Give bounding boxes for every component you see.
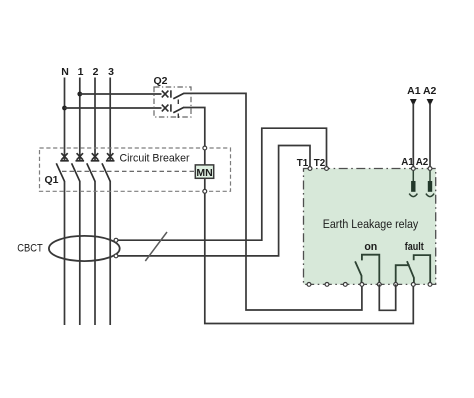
contact fault NC bracket	[396, 265, 410, 284]
svg-text:1: 1	[78, 66, 84, 78]
svg-text:A1: A1	[407, 85, 421, 97]
relay bottom spare terminal 1	[307, 283, 311, 287]
svg-text:2: 2	[93, 66, 99, 78]
contact fault blade	[407, 261, 414, 284]
wire Q2 top contact to ON contact (right, down, across, up)	[184, 93, 362, 310]
wire phase 1 vertical	[79, 78, 81, 161]
svg-text:A2: A2	[416, 157, 429, 168]
switch Q2 enclosure dash-dot box	[154, 87, 191, 117]
svg-text:MN: MN	[196, 167, 212, 179]
terminal circle T1	[308, 167, 312, 171]
svg-text:on: on	[364, 241, 377, 253]
wire phase 3 vertical	[109, 78, 111, 161]
svg-text:T1: T1	[297, 158, 309, 169]
wire jumper on-right to fault-NC	[379, 284, 395, 310]
terminal circle T2	[325, 167, 329, 171]
relay bottom spare terminal 3	[343, 283, 347, 287]
svg-text:A2: A2	[423, 85, 437, 97]
svg-text:Earth Leakage relay: Earth Leakage relay	[323, 217, 419, 231]
breaker pole 1 cross and blade	[72, 153, 85, 181]
wire A1 arrow to terminal	[412, 103, 414, 166]
arrow into A1	[410, 99, 417, 106]
svg-text:T2: T2	[314, 158, 326, 169]
relay bottom terminal on-left	[360, 283, 364, 287]
terminal circle MN wire top	[203, 146, 207, 150]
junction dot on N	[62, 106, 67, 111]
svg-text:Q2: Q2	[154, 75, 168, 87]
Q2 pole linkage dashes	[177, 100, 179, 119]
relay bottom terminal fault-NC	[394, 283, 398, 287]
breaker pole 2 cross and blade	[87, 153, 100, 181]
wire CBCT top terminal to T2	[118, 128, 327, 240]
breaker pole N cross and blade	[56, 153, 69, 181]
contact on blade	[355, 261, 361, 284]
relay Earth Leakage box	[304, 169, 436, 285]
terminal circle A1	[411, 167, 415, 171]
svg-text:Q1: Q1	[45, 174, 59, 186]
terminal circle MN wire bottom	[203, 189, 207, 193]
contact fault NO bracket	[414, 255, 431, 284]
wire neutral N vertical	[64, 78, 66, 161]
CBCT toroid ellipse	[49, 236, 120, 261]
relay coil at A1	[409, 171, 417, 197]
coil MN box	[195, 165, 213, 178]
wire N to Q2 bottom contact	[65, 107, 162, 109]
CBCT secondary terminal top	[114, 238, 118, 242]
wire CBCT bottom terminal to T1	[118, 146, 310, 256]
relay bottom terminal on-right	[377, 283, 381, 287]
contact on (NO) fixed bracket	[362, 255, 379, 285]
terminal circle A2	[428, 167, 432, 171]
svg-text:CBCT: CBCT	[17, 243, 43, 255]
Q2 bottom contact blade	[173, 107, 184, 113]
Q2 top contact breaker cross	[162, 90, 171, 97]
svg-text:fault: fault	[405, 241, 424, 253]
wire phase1 to Q2 top contact	[80, 93, 162, 95]
relay bottom terminal fault-common	[411, 283, 415, 287]
relay bottom terminal fault-NO	[428, 283, 432, 287]
svg-text:Circuit Breaker: Circuit Breaker	[120, 153, 190, 165]
CBCT secondary terminal bottom	[114, 254, 118, 258]
breaker mechanical linkage dashed	[62, 170, 195, 172]
relay coil at A2	[426, 171, 434, 197]
cable slash mark	[145, 232, 167, 261]
junction dot on phase 1	[77, 92, 82, 97]
breaker pole 3 cross and blade	[102, 153, 115, 181]
Q2 top contact blade	[173, 93, 184, 99]
wire Q2 bottom contact through MN to fault common	[184, 108, 414, 324]
svg-text:N: N	[61, 66, 69, 78]
circuit breaker enclosure dashed box	[40, 148, 231, 191]
svg-text:3: 3	[108, 66, 114, 78]
Q2 bottom contact breaker cross	[162, 104, 171, 111]
wire A2 arrow to terminal	[429, 103, 431, 166]
arrow into A2	[427, 99, 434, 106]
wire phase 2 vertical	[94, 78, 96, 161]
relay bottom spare terminal 2	[325, 283, 329, 287]
